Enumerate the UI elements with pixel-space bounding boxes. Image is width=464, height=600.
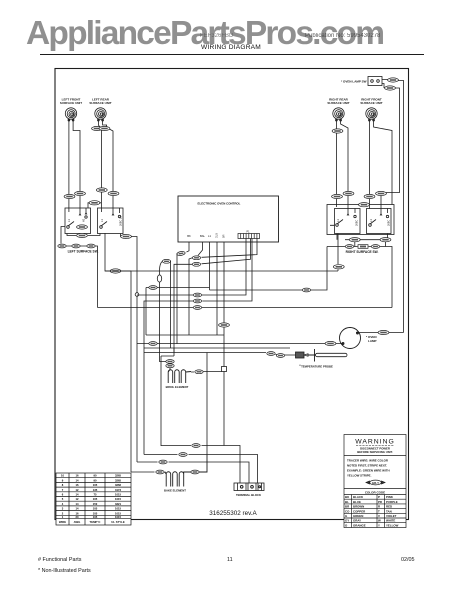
svg-text:SURFACE UNIT: SURFACE UNIT	[327, 101, 349, 105]
wire BAL bus left drop	[145, 288, 147, 336]
connector right switch output A	[349, 238, 360, 242]
wire EOC connector pin b down	[202, 239, 252, 302]
right front surface switch box	[367, 209, 392, 234]
svg-text:14: 14	[76, 507, 79, 511]
connector on EOC harness C	[192, 262, 200, 266]
wire box1 left to chain	[61, 227, 65, 244]
svg-text:12: 12	[76, 497, 79, 501]
svg-text:90: 90	[94, 474, 97, 478]
svg-text:P: P	[378, 495, 380, 499]
connector broil top	[166, 360, 174, 364]
svg-text:RIGHT SURFACE SW.: RIGHT SURFACE SW.	[346, 250, 379, 254]
EOC connector strip	[238, 234, 260, 239]
right pair outer box	[327, 205, 394, 235]
svg-text:TRACER WIRE: WIRE COLOR: TRACER WIRE: WIRE COLOR	[347, 459, 389, 463]
wire oval B drop	[189, 258, 192, 335]
svg-text:3321: 3321	[115, 502, 121, 506]
connector between left switch boxes	[89, 201, 100, 205]
wire RR burner left lead	[335, 121, 337, 208]
connector on RF switch input 2	[376, 191, 387, 195]
svg-text:GR-Y: GR-Y	[372, 481, 379, 485]
svg-text:1015: 1015	[115, 511, 121, 515]
connector on RF switch input	[364, 194, 375, 198]
svg-text:ORANGE: ORANGE	[353, 523, 366, 527]
connector on LR switch output	[121, 234, 132, 238]
connector lamp sw bottom	[385, 86, 396, 90]
connector on neutral bus	[193, 306, 201, 310]
svg-text:FEF326FBD: FEF326FBD	[200, 33, 234, 39]
svg-text:LAMP: LAMP	[368, 339, 377, 343]
svg-text:BROIL ELEMENT: BROIL ELEMENT	[166, 385, 189, 389]
svg-text:# Functional Parts: # Functional Parts	[38, 557, 82, 563]
wire broil right	[191, 371, 222, 374]
wire EOC pin L1 down	[209, 242, 211, 290]
bus 446	[161, 446, 240, 484]
bus BAL horizontal	[146, 247, 327, 291]
svg-text:BLACK: BLACK	[353, 495, 364, 499]
connector on left switch link	[77, 233, 88, 237]
svg-text:DLB: DLB	[216, 233, 219, 238]
svg-text:BK: BK	[187, 234, 191, 238]
svg-text:PURPLE: PURPLE	[386, 500, 398, 504]
connector on EOC harness B	[192, 256, 200, 260]
wire left switch link	[67, 234, 100, 236]
svg-text:11: 11	[227, 557, 233, 563]
svg-text:3265: 3265	[115, 478, 121, 482]
connector on LR switch input	[96, 188, 107, 192]
svg-text:W: W	[378, 519, 381, 523]
color code table grid	[344, 495, 406, 528]
wire 348 drop	[143, 348, 145, 455]
svg-text:105: 105	[93, 507, 98, 511]
connector on LF switch input 2	[75, 191, 86, 195]
wire EOC pin DLB down	[216, 242, 218, 335]
svg-text:TAN: TAN	[386, 509, 392, 513]
wire box A contact down to L1 bus	[337, 234, 339, 272]
svg-text:SURFACE UNIT: SURFACE UNIT	[360, 101, 382, 105]
svg-text:10: 10	[61, 474, 64, 478]
wire 177 drop to 446	[161, 348, 174, 446]
svg-text:BR: BR	[223, 234, 226, 238]
wire lamp left	[137, 343, 342, 345]
svg-text:ELECTRONIC OVEN CONTROL: ELECTRONIC OVEN CONTROL	[198, 202, 241, 206]
svg-text:BAL: BAL	[200, 234, 206, 238]
svg-text:TEMPERATURE PROBE: TEMPERATURE PROBE	[301, 365, 333, 369]
wire between left switch boxes	[88, 203, 101, 208]
svg-text:EXAMPLE: GREEN WIRE WIT: EXAMPLE: GREEN WIRE WITH	[347, 469, 390, 473]
connector below EOC pin BK	[177, 251, 186, 256]
svg-text:1015: 1015	[115, 493, 121, 497]
svg-text:WIRING DIAGRAM: WIRING DIAGRAM	[201, 44, 261, 51]
probe handle crossbar	[308, 349, 316, 362]
svg-text:1015: 1015	[115, 515, 121, 519]
svg-text:1015: 1015	[115, 507, 121, 511]
connector on P1b wire	[193, 299, 201, 303]
svg-text:3173: 3173	[115, 488, 121, 492]
svg-text:T: T	[378, 509, 380, 513]
svg-text:105: 105	[93, 483, 98, 487]
wire lamp sw top out	[382, 80, 404, 333]
connector on L1 bus left	[110, 269, 121, 273]
wire EOC pin BR down	[223, 242, 225, 369]
svg-text:RED: RED	[386, 505, 392, 509]
left rear surface switch box	[98, 208, 124, 234]
svg-text:LEFT SURFACE SW.: LEFT SURFACE SW.	[68, 250, 99, 254]
connector lamp right	[378, 330, 389, 334]
wire LR switch bottom down	[105, 233, 110, 271]
svg-text:BAKE ELEMENT: BAKE ELEMENT	[164, 489, 186, 493]
wire 207 drop	[206, 353, 208, 456]
svg-text:14: 14	[76, 478, 79, 482]
connector on BAL bus	[149, 286, 157, 290]
connector on LF switch input	[64, 194, 75, 198]
svg-text:20: 20	[76, 515, 79, 519]
svg-text:3265: 3265	[115, 474, 121, 478]
connector on right BAL bus	[302, 288, 310, 292]
connector between right switch boxes	[359, 203, 370, 207]
connector on RR burner left lead	[332, 129, 343, 133]
wire EOC pin BAL down	[198, 242, 203, 256]
svg-text:150: 150	[93, 502, 98, 506]
connector on bus 446	[192, 444, 200, 448]
connector probe a	[267, 352, 275, 356]
svg-text:PINK: PINK	[386, 495, 394, 499]
svg-text:TERMINAL BLOCK: TERMINAL BLOCK	[236, 493, 261, 497]
svg-text:GY: GY	[345, 519, 349, 523]
connector on BR wire	[219, 323, 230, 327]
svg-text:Publication No: 5995430278: Publication No: 5995430278	[305, 33, 381, 39]
svg-text:BEFORE SERVICING UNIT.: BEFORE SERVICING UNIT.	[357, 450, 393, 454]
svg-text:L1: L1	[208, 234, 211, 238]
svg-text:105: 105	[93, 515, 98, 519]
connector on bus 455	[179, 453, 187, 457]
connector bake right	[191, 470, 199, 474]
svg-text:V: V	[378, 514, 380, 518]
wire 137 drop	[136, 344, 138, 463]
svg-text:YELLOW STRIPE.: YELLOW STRIPE.	[347, 474, 372, 478]
bus 472	[131, 471, 166, 473]
left surface sw connector chain	[58, 244, 95, 248]
connector on LR switch input 2	[108, 191, 119, 195]
svg-text:SURFACE UNIT: SURFACE UNIT	[60, 101, 82, 105]
wire LR burner left lead	[98, 121, 101, 209]
connector on P1a wire	[193, 293, 201, 297]
temperature probe jack	[285, 352, 308, 358]
wire LR burner right lead	[103, 121, 113, 209]
right rear surface unit burner	[333, 108, 344, 121]
svg-text:L1: L1	[369, 219, 373, 222]
terminal block	[234, 483, 264, 491]
svg-text:L1: L1	[100, 219, 104, 222]
svg-text:GRAY: GRAY	[353, 519, 361, 523]
connector lamp sw top	[388, 78, 399, 82]
connector lamp left	[325, 341, 336, 345]
svg-text:16: 16	[76, 474, 79, 478]
bus 462	[137, 462, 249, 483]
svg-text:14: 14	[76, 502, 79, 506]
connector oven sensor tap	[162, 259, 170, 263]
oven temperature fuse	[157, 261, 166, 361]
wire P1a left run	[137, 294, 193, 296]
svg-text:90: 90	[94, 478, 97, 482]
connector broil top 2	[166, 364, 174, 368]
connector on L1 bus right riser	[333, 265, 344, 269]
wire oval A drop	[176, 254, 178, 345]
wire right switch link outputs	[330, 225, 388, 246]
wire LR switch right output	[121, 234, 138, 238]
wire L1 bus to left riser	[121, 271, 131, 472]
svg-text:BROWN: BROWN	[353, 505, 364, 509]
right surface sw connector chain	[327, 245, 392, 308]
svg-text:16: 16	[76, 483, 79, 487]
svg-text:COLOR CODE: COLOR CODE	[365, 491, 385, 495]
wire BR continue down	[223, 372, 225, 446]
broil element	[168, 368, 191, 384]
svg-text:Y: Y	[378, 523, 380, 527]
right rear surface switch box	[335, 209, 361, 234]
probe line	[144, 335, 290, 355]
connector on RR switch input	[332, 194, 343, 198]
wire RR burner right lead	[341, 121, 348, 209]
bake element	[165, 455, 207, 487]
wire EOC connector pin c down	[202, 239, 258, 258]
svg-text:P1: P1	[247, 231, 251, 234]
svg-text:105: 105	[93, 497, 98, 501]
svg-text:75: 75	[94, 493, 97, 497]
bus neutral horizontal long	[98, 307, 393, 309]
wire LF burner left lead	[68, 121, 70, 209]
svg-text:AWG: AWG	[74, 520, 81, 524]
svg-text:L1: L1	[336, 219, 340, 222]
GR-Y example connector	[366, 480, 385, 485]
svg-text:3266: 3266	[115, 483, 121, 487]
connector on LR burner right lead	[99, 126, 110, 130]
svg-text:TEMP°C: TEMP°C	[90, 520, 101, 524]
electronic oven control box	[178, 196, 279, 242]
wire RF burner right lead	[374, 121, 392, 209]
right front surface unit burner	[366, 108, 377, 121]
svg-text:NOTED FIRST, STRIPE NEXT.: NOTED FIRST, STRIPE NEXT.	[347, 464, 387, 468]
svg-text:WIRE: WIRE	[59, 520, 66, 524]
left front surface switch box	[65, 208, 91, 234]
svg-text:316255302 rev.A: 316255302 rev.A	[209, 510, 257, 517]
svg-text:208C: 208C	[355, 220, 359, 226]
oven lamp switch box	[368, 77, 382, 86]
connector on LR burner left lead	[92, 126, 103, 130]
bus L1 horizontal	[105, 270, 338, 272]
wire LR switch right riser down	[136, 238, 138, 344]
svg-text:16: 16	[76, 511, 79, 515]
connector on RR switch input 2	[343, 191, 354, 195]
wire EOC connector pin a down	[202, 239, 246, 296]
oven lamp bulb	[340, 328, 361, 349]
connector broil right	[195, 370, 203, 374]
wire oval C drop	[174, 264, 192, 352]
svg-text:VIOLET: VIOLET	[386, 514, 397, 518]
connector right switch output B	[380, 238, 391, 242]
svg-text:208C: 208C	[387, 220, 391, 226]
svg-text:GREEN: GREEN	[353, 514, 363, 518]
svg-text:CO: CO	[345, 509, 350, 513]
svg-text:208C L1: 208C L1	[119, 216, 123, 226]
svg-text:105: 105	[93, 511, 98, 515]
svg-text:02/05: 02/05	[401, 557, 415, 563]
svg-text:COPPER: COPPER	[353, 509, 366, 513]
connector on bus 462	[159, 460, 167, 464]
probe bar	[316, 353, 348, 356]
svg-text:1015: 1015	[115, 497, 121, 501]
connector probe b	[276, 354, 284, 358]
connector on bus 472	[156, 470, 164, 474]
bus 455	[144, 455, 258, 484]
svg-text:SURFACE UNIT: SURFACE UNIT	[89, 101, 111, 105]
warning paragraph	[347, 459, 390, 478]
wire EOC connector pin d down	[202, 239, 251, 264]
svg-text:H1: H1	[82, 218, 86, 222]
wire P1b left run	[144, 301, 193, 348]
svg-text:BL: BL	[345, 500, 349, 504]
wire RF burner left lead	[368, 121, 370, 209]
connector on 343.5 line	[149, 342, 157, 346]
svg-text:BLUE: BLUE	[353, 500, 361, 504]
svg-text:* OVEN LAMP SW: * OVEN LAMP SW	[341, 80, 367, 84]
junction on 137 riser	[135, 293, 139, 297]
color code rows	[345, 495, 399, 527]
svg-text:UL STYLE: UL STYLE	[111, 520, 125, 524]
header rule	[40, 54, 424, 56]
left front surface unit burner	[65, 108, 76, 121]
wire lamp sw bottom out	[382, 84, 400, 193]
left rear surface unit burner	[95, 108, 106, 121]
wire LF burner right lead	[73, 121, 80, 209]
svg-text:* Non-Illustrated Parts: * Non-Illustrated Parts	[38, 568, 91, 574]
broil node square	[222, 367, 227, 372]
svg-text:12: 12	[76, 488, 79, 492]
wire oval D drop	[170, 261, 172, 348]
svg-text:WHITE: WHITE	[386, 519, 395, 523]
svg-text:L1: L1	[67, 219, 71, 222]
wire lamp right to riser	[356, 332, 404, 334]
svg-text:14: 14	[76, 493, 79, 497]
svg-text:YELLOW: YELLOW	[386, 523, 399, 527]
wire chain to lower bus	[95, 246, 97, 308]
svg-text:WARNING: WARNING	[355, 439, 395, 446]
svg-text:135: 135	[93, 488, 98, 492]
wire EOC pin BK down	[187, 242, 190, 252]
connector inside LF switch	[77, 225, 88, 229]
